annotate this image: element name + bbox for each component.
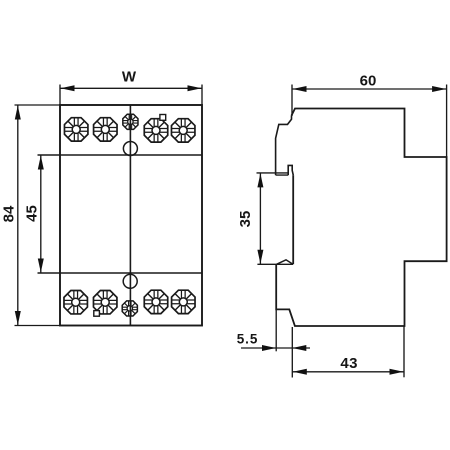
dimension W line bbox=[60, 87, 202, 89]
top DIN claw bottom double line bbox=[276, 173, 289, 175]
dimension W arrows bbox=[61, 85, 75, 91]
dimension 43 arrows bbox=[293, 369, 307, 375]
dimension 60 line bbox=[292, 88, 447, 90]
bottom center circle bbox=[123, 274, 137, 288]
svg-text:45: 45 bbox=[24, 205, 41, 222]
dimension 35 top extension line bbox=[257, 172, 276, 174]
terminal screw bottom 1 bbox=[64, 290, 87, 313]
small center screw top bbox=[123, 114, 138, 129]
bottom claw base line with extension bbox=[257, 263, 293, 265]
dimension W extension lines bbox=[59, 85, 61, 106]
dimension 84 line bbox=[17, 105, 19, 326]
indicator square top bbox=[160, 115, 166, 121]
dimension 35 line bbox=[259, 173, 261, 264]
terminal screw bottom 4 bbox=[172, 290, 195, 313]
indicator square bottom bbox=[94, 311, 100, 317]
svg-text:5.5: 5.5 bbox=[237, 331, 258, 346]
svg-text:60: 60 bbox=[360, 73, 377, 90]
dimension 43 extension lines bbox=[291, 327, 293, 378]
dimension 60 arrows bbox=[293, 86, 307, 92]
dimension 5.5 arrows bbox=[262, 345, 276, 351]
terminal screw top 1 bbox=[64, 118, 87, 141]
dimension 35 arrows bbox=[257, 173, 263, 187]
lower left edge extension for 5.5 bbox=[275, 309, 277, 351]
front view body outline bbox=[60, 105, 202, 326]
terminal screw bottom 2 bbox=[93, 290, 116, 313]
side view main outline bbox=[276, 109, 446, 327]
terminal screw top 2 bbox=[94, 118, 117, 141]
lower terminal cover line with extension bbox=[38, 272, 203, 274]
dimension 84 arrows bbox=[15, 106, 21, 120]
side view left main edge bbox=[292, 175, 294, 264]
dimension 45 arrows bbox=[38, 156, 44, 170]
svg-text:35: 35 bbox=[237, 211, 254, 228]
top center circle bbox=[123, 142, 137, 156]
svg-text:84: 84 bbox=[1, 205, 18, 222]
terminal screw bottom 3 bbox=[144, 290, 167, 313]
upper terminal cover line with extension bbox=[38, 154, 203, 156]
dimension 84 extension lines bbox=[15, 104, 61, 106]
svg-text:43: 43 bbox=[340, 355, 358, 372]
dimension 60 extension lines bbox=[291, 85, 293, 117]
dimension 45 line bbox=[40, 155, 42, 273]
svg-text:W: W bbox=[122, 69, 137, 86]
terminal screw top 4 bbox=[171, 119, 194, 142]
top DIN claw hook bbox=[288, 165, 293, 175]
dimension 5.5 line bbox=[241, 347, 310, 349]
front view vertical centerline bbox=[129, 105, 131, 326]
small center screw bottom bbox=[122, 301, 137, 316]
top DIN claw outline bbox=[276, 116, 292, 176]
dimension 43 line bbox=[292, 371, 404, 373]
bottom claw wedge bbox=[277, 260, 294, 265]
terminal screw top 3 bbox=[144, 119, 167, 142]
